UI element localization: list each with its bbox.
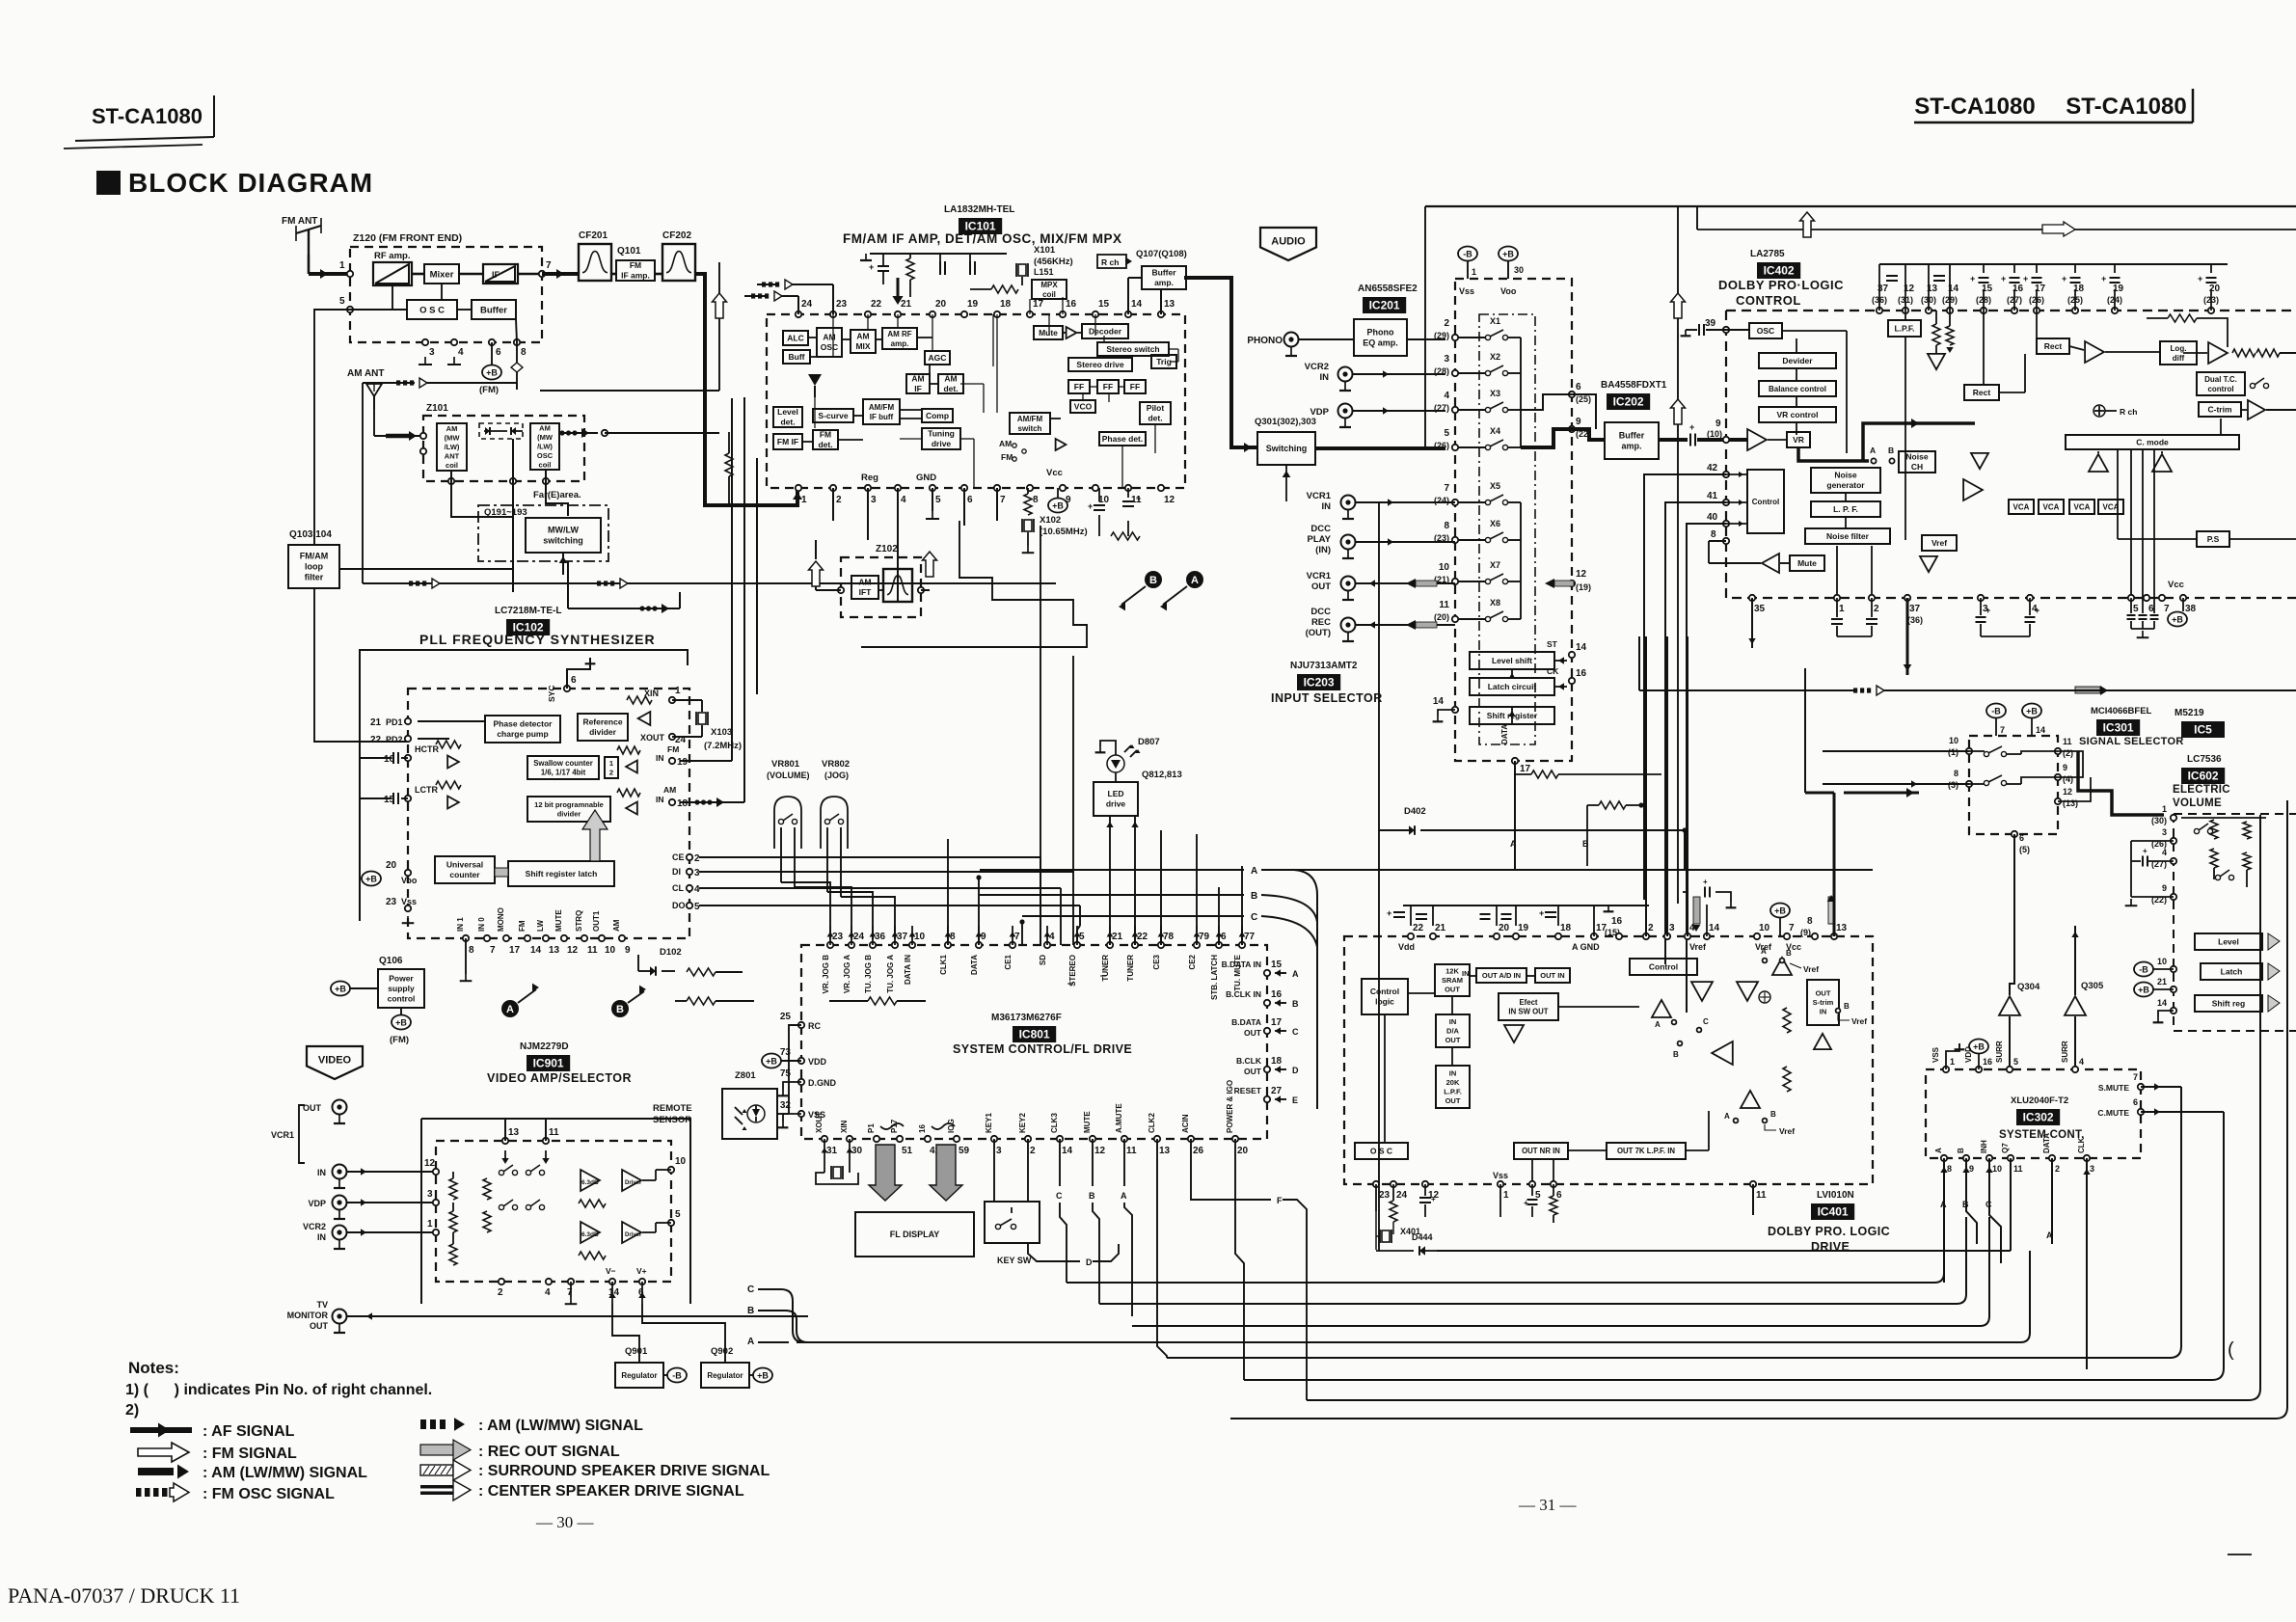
XIN pin1	[669, 697, 675, 703]
svg-text:+: +	[2198, 274, 2202, 284]
svg-text:4: 4	[2162, 848, 2167, 857]
svg-text:ST-CA1080: ST-CA1080	[92, 104, 203, 128]
svg-text:14: 14	[1062, 1146, 1073, 1156]
wires Z101 to MW/LW switching	[451, 481, 513, 517]
svg-text:IC901: IC901	[533, 1057, 564, 1070]
svg-text:A: A	[1870, 446, 1876, 455]
thick signal line to pin13	[1833, 793, 1836, 936]
IN connector	[333, 1165, 347, 1179]
Z102 pins and hollow arrows	[838, 587, 844, 593]
svg-text:B: B	[747, 1306, 754, 1316]
AM antenna	[373, 395, 375, 409]
svg-text:XLU2040F-T2: XLU2040F-T2	[2011, 1095, 2068, 1106]
svg-text:18: 18	[677, 798, 689, 809]
svg-text:14: 14	[1709, 923, 1720, 933]
svg-text:+: +	[1703, 878, 1708, 886]
svg-text:11: 11	[1126, 1146, 1137, 1156]
svg-text:A GND: A GND	[1572, 942, 1600, 952]
svg-text:STB. LATCH: STB. LATCH	[1210, 955, 1219, 1000]
svg-text:Balance control: Balance control	[1769, 385, 1826, 393]
svg-text:14: 14	[1576, 642, 1587, 653]
svg-text:X7: X7	[1490, 560, 1500, 570]
pin 7	[539, 271, 545, 277]
block AM/FM switch	[1010, 413, 1050, 434]
pin14 gnd left	[1452, 707, 1458, 713]
svg-text:LCTR: LCTR	[415, 785, 438, 795]
svg-text:+B: +B	[365, 875, 377, 884]
svg-text:12: 12	[2063, 787, 2072, 797]
IC102 dashed outline	[408, 689, 689, 938]
svg-text:4: 4	[458, 347, 464, 358]
svg-text:B: B	[1673, 1050, 1679, 1059]
wires between filters	[611, 273, 616, 276]
+B FM below power supply	[400, 1008, 402, 1014]
svg-text:ST-CA1080: ST-CA1080	[2066, 94, 2186, 120]
svg-text:9: 9	[625, 945, 631, 956]
svg-text:X101: X101	[1034, 245, 1056, 256]
svg-text:VCR1: VCR1	[1307, 491, 1332, 501]
svg-text:Q305: Q305	[2081, 981, 2104, 991]
IF amp triangle	[483, 264, 518, 284]
svg-text:PD1: PD1	[386, 717, 403, 727]
svg-text:10: 10	[1992, 1164, 2002, 1174]
svg-text:+: +	[2101, 274, 2106, 284]
svg-text:38: 38	[2185, 604, 2197, 614]
phono EQ amp	[1354, 319, 1407, 356]
svg-text:X8: X8	[1490, 598, 1500, 608]
svg-text:RF amp.: RF amp.	[374, 251, 410, 261]
OUT A/D IN box	[1476, 968, 1526, 983]
svg-text:Vss: Vss	[1493, 1171, 1508, 1180]
svg-text:CK: CK	[1547, 666, 1559, 676]
svg-text:10: 10	[1759, 923, 1770, 933]
svg-text:POWER & IGO: POWER & IGO	[1226, 1080, 1234, 1133]
block VCO	[1070, 400, 1095, 413]
svg-text:PHONO: PHONO	[1247, 336, 1283, 346]
resistor under pin area	[725, 453, 733, 476]
arrow into switching	[562, 553, 564, 575]
svg-text:Q304: Q304	[2017, 982, 2040, 992]
svg-text:TV: TV	[316, 1300, 328, 1310]
svg-text:14: 14	[2157, 998, 2167, 1008]
bus line F	[1244, 1112, 2224, 1380]
svg-text:IC602: IC602	[2188, 770, 2219, 783]
resistors right of PLL	[687, 968, 716, 976]
svg-text:IN: IN	[1449, 1017, 1457, 1026]
svg-text:XOUT: XOUT	[815, 1112, 824, 1133]
c-trim wires	[2241, 409, 2247, 411]
svg-text:C: C	[1292, 1027, 1299, 1037]
svg-text:12: 12	[424, 1158, 436, 1169]
svg-text:coil: coil	[539, 461, 552, 470]
svg-text:21: 21	[1112, 932, 1123, 942]
svg-text:Control: Control	[1370, 987, 1399, 996]
svg-text:VIDEO: VIDEO	[318, 1055, 352, 1067]
legend AF SIGNAL	[130, 1427, 192, 1433]
wire CF201 chain	[542, 272, 579, 276]
svg-text:7: 7	[567, 1287, 573, 1298]
resistor B	[1599, 801, 1626, 809]
resistor top loop	[2168, 314, 2197, 322]
IC901 wires in	[347, 1171, 436, 1173]
block ALC	[783, 331, 808, 345]
mute box	[1790, 555, 1824, 571]
svg-text:+B: +B	[486, 368, 498, 378]
OUT S-trim IN box	[1807, 980, 1839, 1025]
svg-text:Vcc: Vcc	[1046, 468, 1063, 478]
left dotted feeds	[762, 282, 766, 286]
TV MONITOR OUT connector	[333, 1310, 347, 1324]
svg-text:(10): (10)	[1707, 429, 1722, 439]
triangle stubs cmode	[2097, 473, 2099, 500]
svg-text:OUT IN: OUT IN	[1540, 971, 1564, 980]
thick AM arrow into pin21	[897, 278, 900, 299]
svg-text:det.: det.	[818, 440, 832, 449]
volume ladder	[2131, 840, 2174, 842]
svg-text:7: 7	[2133, 1072, 2138, 1082]
OUT IN box	[1535, 968, 1570, 983]
svg-text:L.P.F.: L.P.F.	[1894, 323, 1914, 333]
svg-text:CE1: CE1	[1004, 954, 1013, 969]
svg-text:DATA: DATA	[2042, 1133, 2051, 1153]
thick audio into buffer	[1596, 438, 1605, 442]
svg-text:8: 8	[521, 347, 527, 358]
pins CE DI CL DO	[687, 854, 692, 860]
svg-text:(FM): (FM)	[390, 1035, 409, 1045]
svg-text:Vcc: Vcc	[2168, 580, 2184, 590]
svg-text:1) ( ) indicates Pin No.: 1) ( ) indicates Pin No. of right channe…	[125, 1382, 432, 1398]
svg-text:C: C	[747, 1284, 754, 1295]
svg-text:: REC OUT SIGNAL: : REC OUT SIGNAL	[478, 1444, 620, 1460]
level latch shift boxes	[2195, 933, 2262, 950]
svg-text:Efect: Efect	[1519, 998, 1537, 1007]
svg-text:(28): (28)	[1434, 366, 1449, 376]
dotted symbol top	[396, 380, 400, 385]
svg-text:+B: +B	[2026, 707, 2038, 716]
svg-text:loop: loop	[305, 562, 323, 572]
Z120 FM front end dashed box	[350, 247, 542, 342]
svg-text:IN SW OUT: IN SW OUT	[1508, 1008, 1548, 1016]
svg-text:Rect: Rect	[1973, 388, 1991, 397]
svg-text:17: 17	[1520, 764, 1531, 774]
svg-text:Control: Control	[1649, 961, 1678, 971]
blocks FF FF FF	[1068, 380, 1090, 393]
diode pair dash box	[479, 423, 523, 439]
svg-text:2: 2	[609, 768, 613, 776]
circled B arrow	[1145, 571, 1162, 588]
svg-text:Reference: Reference	[582, 717, 622, 727]
svg-text:21: 21	[370, 717, 382, 728]
svg-text:25: 25	[780, 1012, 792, 1022]
svg-text:Z801: Z801	[735, 1070, 756, 1081]
block Stereo drive	[1068, 358, 1132, 371]
svg-text:+: +	[1970, 274, 1975, 284]
svg-text:5: 5	[2013, 1057, 2018, 1067]
svg-text:Voo: Voo	[1500, 286, 1517, 296]
hatched arrow DCC REC	[1406, 620, 1416, 630]
svg-text:TU. JOG A: TU. JOG A	[886, 955, 895, 993]
svg-text:drive: drive	[932, 439, 952, 448]
svg-text:X1: X1	[1490, 316, 1500, 326]
AM OSC coil	[530, 423, 559, 470]
svg-text:B: B	[1844, 1002, 1850, 1011]
block AM IF	[906, 374, 930, 393]
svg-text:22: 22	[871, 299, 882, 310]
wires RF-mixer-IF	[412, 273, 424, 276]
thick from VR down right to AB switch	[1798, 447, 1869, 461]
legend FM SIGNAL	[138, 1443, 189, 1462]
svg-text:(4): (4)	[2063, 774, 2073, 784]
svg-text:-B: -B	[672, 1371, 682, 1381]
svg-text:Mute: Mute	[1797, 558, 1817, 568]
PLL outer solid box	[360, 650, 688, 921]
svg-text:11: 11	[2063, 737, 2072, 746]
IC901 bottom pins	[499, 1279, 504, 1284]
svg-text:D: D	[1292, 1066, 1299, 1075]
svg-text:(2): (2)	[2063, 748, 2073, 758]
svg-text:Q107(Q108): Q107(Q108)	[1136, 249, 1187, 259]
Control box IC401	[1630, 959, 1697, 975]
IC801 right pins	[1264, 970, 1270, 976]
block FM IF	[773, 434, 802, 449]
svg-text:IC203: IC203	[1304, 676, 1335, 689]
svg-text:13: 13	[1159, 1146, 1171, 1156]
svg-text:AN6558SFE2: AN6558SFE2	[1358, 284, 1418, 294]
stair step wires top left of IC801	[861, 521, 1087, 647]
svg-text:23: 23	[832, 932, 844, 942]
svg-text:+B: +B	[1052, 501, 1064, 511]
Z102 bandpass	[883, 569, 912, 602]
filled triangle detector	[808, 374, 822, 386]
svg-text:7: 7	[490, 945, 496, 956]
bus line G	[1307, 815, 2260, 1400]
svg-text:VR: VR	[1793, 435, 1804, 445]
svg-text:1: 1	[609, 759, 613, 768]
Balance control box	[1759, 381, 1836, 396]
svg-text:FM: FM	[667, 744, 679, 754]
svg-text:OUT NR IN: OUT NR IN	[1522, 1147, 1560, 1155]
buffer box	[472, 300, 516, 319]
svg-text:16: 16	[1066, 299, 1077, 310]
legend FM OSC SIGNAL	[136, 1488, 142, 1497]
wire AM ant to Z101	[373, 409, 375, 436]
wire loop filter right to PLL	[339, 568, 513, 570]
svg-text:FM: FM	[518, 920, 527, 932]
buffer amp Q107	[1142, 266, 1186, 289]
svg-text:10: 10	[1439, 562, 1450, 573]
svg-text:7: 7	[2164, 604, 2170, 614]
svg-text:B: B	[1786, 949, 1792, 958]
svg-text:B.DATA: B.DATA	[1231, 1017, 1261, 1027]
+B to power supply	[331, 982, 350, 996]
key sw wires	[993, 1139, 995, 1202]
svg-text:Z120 (FM FRONT END): Z120 (FM FRONT END)	[353, 232, 462, 244]
svg-text:Q812,813: Q812,813	[1142, 770, 1182, 780]
svg-text:: CENTER SPEAKER DRIVE SIGNAL: : CENTER SPEAKER DRIVE SIGNAL	[478, 1483, 744, 1500]
wires into IC301	[1823, 750, 1969, 752]
phase detector charge pump	[485, 716, 560, 743]
svg-text:39: 39	[1705, 318, 1716, 329]
svg-text:(24): (24)	[1434, 496, 1449, 505]
svg-text:9: 9	[2162, 883, 2167, 893]
svg-text:Latch circuit: Latch circuit	[1488, 682, 1537, 691]
VDP connector	[333, 1196, 347, 1210]
IC402 tag	[1757, 262, 1800, 279]
block Stereo switch	[1097, 342, 1169, 356]
cap at 14	[1704, 887, 1706, 898]
svg-text:MPX: MPX	[1040, 281, 1058, 289]
PS box	[2197, 531, 2229, 547]
plus adder circle	[1759, 991, 1770, 1003]
svg-text:A.MUTE: A.MUTE	[1115, 1103, 1123, 1133]
svg-text:21: 21	[1435, 923, 1446, 933]
svg-text:(JOG): (JOG)	[824, 770, 849, 780]
svg-text:IF buff: IF buff	[870, 413, 894, 421]
circled A ref	[501, 1000, 519, 1017]
svg-text:11: 11	[587, 945, 598, 956]
vertical trunk x1740	[1677, 206, 1679, 904]
svg-text:OUT: OUT	[1244, 1067, 1262, 1076]
svg-text:Regulator: Regulator	[621, 1371, 657, 1380]
wires PLL outputs right	[699, 856, 1040, 858]
pin 1	[347, 271, 353, 277]
hatched arrow counter-latch	[495, 868, 508, 877]
ACIN wire F	[1191, 1139, 1271, 1200]
svg-text:B: B	[1292, 999, 1299, 1009]
svg-text:A: A	[1251, 866, 1257, 877]
block AM RF amp	[882, 328, 917, 349]
svg-text:switching: switching	[543, 536, 583, 546]
svg-text:IF amp.: IF amp.	[621, 271, 650, 281]
svg-text:B: B	[1089, 1191, 1095, 1201]
legend AM dotted	[420, 1419, 426, 1429]
svg-text:FM/AM IF AMP, DET/AM OSC, MIX/: FM/AM IF AMP, DET/AM OSC, MIX/FM MPX	[843, 231, 1122, 246]
svg-text:F: F	[1277, 1196, 1283, 1205]
svg-text:A: A	[747, 1337, 754, 1347]
svg-text:LA2785: LA2785	[1750, 249, 1785, 259]
bus line H bottom	[1230, 800, 2287, 1419]
svg-text:18: 18	[1560, 923, 1572, 933]
svg-text:Shift register latch: Shift register latch	[526, 869, 598, 879]
svg-text:8: 8	[1444, 521, 1449, 531]
svg-text:DI: DI	[672, 867, 681, 877]
svg-text:17: 17	[509, 945, 521, 956]
arrows on boxes	[2268, 933, 2280, 950]
svg-text:4: 4	[1444, 391, 1449, 401]
AM dotted into selector	[1853, 688, 1857, 692]
svg-text:generator: generator	[1826, 480, 1865, 490]
overline STEREO	[1067, 983, 1073, 985]
VCR1 OUT connector	[333, 1100, 347, 1115]
svg-text:1/6, 1/17 4bit: 1/6, 1/17 4bit	[541, 769, 586, 777]
svg-text:3: 3	[871, 495, 877, 505]
FM IN pin19	[669, 758, 675, 764]
svg-text:Vref: Vref	[1851, 1016, 1867, 1026]
svg-text:IC402: IC402	[1764, 264, 1795, 278]
svg-text:R ch: R ch	[1101, 257, 1119, 267]
svg-text:5: 5	[339, 296, 345, 307]
svg-text:LVI010N: LVI010N	[1817, 1190, 1854, 1201]
svg-text:CE: CE	[672, 852, 685, 862]
mid rails right of IC401	[1873, 1050, 2287, 1052]
svg-text:(MW: (MW	[537, 433, 554, 442]
svg-text:VCR1: VCR1	[1307, 571, 1332, 581]
svg-text:B: B	[1957, 1148, 1965, 1153]
svg-text:Vdd: Vdd	[1398, 942, 1415, 952]
chain wires	[1796, 338, 1797, 353]
svg-text:Tuning: Tuning	[928, 429, 955, 439]
svg-text:D807: D807	[1138, 737, 1160, 747]
svg-text:23: 23	[836, 299, 848, 310]
svg-text:1: 1	[801, 495, 807, 505]
svg-text:VR802: VR802	[822, 759, 850, 770]
svg-text:Pilot: Pilot	[1147, 403, 1165, 413]
svg-text:Rect: Rect	[2044, 341, 2063, 351]
svg-text:X103: X103	[711, 727, 732, 738]
IC201 tag	[1363, 297, 1406, 313]
svg-text:drive: drive	[1106, 799, 1126, 809]
svg-text:C. mode: C. mode	[2136, 437, 2169, 446]
svg-text:8: 8	[1954, 769, 1958, 778]
svg-text:VDD: VDD	[1964, 1046, 1973, 1063]
svg-text:IC201: IC201	[1369, 299, 1400, 312]
svg-text:13: 13	[508, 1127, 520, 1138]
svg-text:B: B	[1251, 891, 1257, 902]
wire TV monitor out	[347, 1315, 808, 1317]
svg-text:(FM): (FM)	[479, 385, 499, 395]
selector switches	[499, 1170, 503, 1175]
Efect IN SW OUT box	[1499, 993, 1558, 1020]
svg-text:OUT: OUT	[1445, 1036, 1461, 1044]
inverters FM AM	[626, 761, 637, 773]
svg-text:+: +	[1431, 1195, 1436, 1203]
svg-text:IC801: IC801	[1019, 1028, 1050, 1041]
12bit programmable divider	[527, 797, 610, 822]
switching box	[1257, 432, 1315, 465]
svg-text:6: 6	[571, 675, 577, 686]
svg-text:+: +	[2001, 274, 2006, 284]
svg-text:(20): (20)	[1434, 612, 1449, 622]
svg-text:Level: Level	[777, 407, 798, 417]
MPX coil box	[1032, 280, 1067, 299]
shift register latch	[508, 861, 614, 886]
legend SURROUND	[420, 1465, 453, 1475]
pin20 Voo +B	[405, 870, 411, 876]
LCTR pin15	[405, 796, 411, 801]
svg-text:20: 20	[1499, 923, 1510, 933]
svg-text:OUT: OUT	[1445, 1096, 1461, 1105]
svg-text:L151: L151	[1034, 267, 1054, 277]
svg-text:O S C: O S C	[1370, 1146, 1392, 1155]
pin 39 osc cap	[1723, 327, 1729, 333]
internal wires IC101	[808, 337, 817, 338]
shift register box	[1470, 707, 1554, 724]
caps under bottom pins	[1836, 598, 1838, 617]
sensor wire to RC	[777, 1113, 789, 1115]
svg-text:L. P. F.: L. P. F.	[1833, 504, 1858, 514]
svg-text:Regulator: Regulator	[707, 1371, 743, 1380]
pins 14 16 on right of IC203	[1569, 652, 1575, 658]
svg-text:7: 7	[1000, 495, 1006, 505]
svg-text:1: 1	[427, 1219, 433, 1230]
svg-text:+: +	[2062, 274, 2066, 284]
svg-text:FL DISPLAY: FL DISPLAY	[890, 1230, 940, 1239]
svg-text:D444: D444	[1412, 1232, 1433, 1242]
svg-text:ST: ST	[1547, 639, 1558, 649]
svg-text:3: 3	[694, 868, 700, 879]
IN 20K LPF OUT box	[1436, 1066, 1470, 1108]
svg-text:ACIN: ACIN	[1181, 1114, 1190, 1133]
